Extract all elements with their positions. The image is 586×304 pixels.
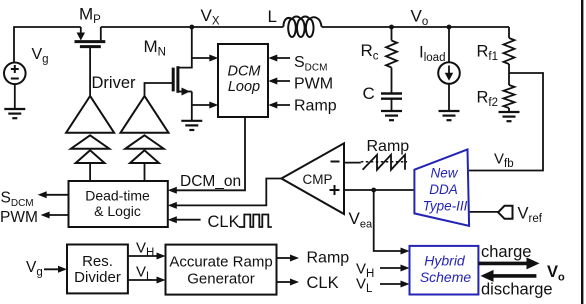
- svg-text:Driver: Driver: [92, 74, 137, 92]
- svg-text:& Logic: & Logic: [94, 203, 141, 219]
- svg-text:Divider: Divider: [74, 269, 121, 286]
- svg-text:C: C: [363, 84, 375, 103]
- svg-text:Scheme: Scheme: [420, 269, 472, 285]
- svg-text:New: New: [430, 166, 458, 181]
- svg-text:Loop: Loop: [228, 79, 260, 95]
- svg-text:Dead-time: Dead-time: [85, 188, 150, 204]
- svg-text:charge: charge: [481, 243, 531, 261]
- svg-text:PWM: PWM: [294, 76, 333, 93]
- svg-text:Accurate Ramp: Accurate Ramp: [169, 253, 272, 270]
- svg-text:CLK: CLK: [307, 274, 339, 292]
- svg-text:Hybrid: Hybrid: [424, 253, 466, 269]
- svg-text:Ramp: Ramp: [294, 98, 337, 115]
- svg-text:discharge: discharge: [481, 281, 553, 299]
- svg-text:CMP: CMP: [303, 172, 333, 187]
- svg-text:L: L: [268, 7, 277, 26]
- svg-text:Type-III: Type-III: [423, 199, 468, 214]
- svg-text:DCM: DCM: [227, 64, 261, 80]
- svg-text:Res.: Res.: [82, 253, 113, 270]
- svg-text:DDA: DDA: [429, 182, 458, 197]
- svg-text:Ramp: Ramp: [307, 250, 350, 267]
- svg-text:Generator: Generator: [187, 270, 255, 287]
- svg-text:CLK: CLK: [208, 213, 240, 231]
- svg-text:PWM: PWM: [0, 209, 38, 226]
- svg-text:Ramp: Ramp: [367, 138, 410, 155]
- svg-text:DCM_on: DCM_on: [180, 173, 241, 190]
